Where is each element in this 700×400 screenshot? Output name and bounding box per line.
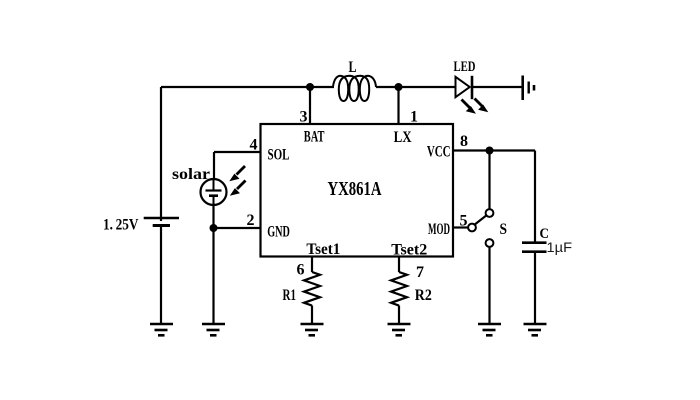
- LED D1 triangle: [456, 77, 470, 97]
- svg-text:1: 1: [410, 109, 418, 126]
- wire solar cell to GND junction: [212, 204, 214, 228]
- wire battery to ground: [160, 225, 162, 324]
- resistor R2: [391, 272, 407, 306]
- solar cell inner short plate: [209, 194, 218, 197]
- svg-text:VCC: VCC: [427, 143, 451, 160]
- wire pin4 SOL horizontal: [214, 151, 261, 153]
- wire left vertical (top rail down to battery): [160, 87, 162, 221]
- node junction dot at LX/top-rail: [395, 83, 403, 91]
- solar cell inner long plate: [206, 189, 222, 191]
- wire pin2 GND horizontal: [214, 227, 261, 229]
- node junction dot VCC rail: [486, 147, 494, 155]
- wire solar junction to ground: [212, 228, 214, 324]
- svg-text:5: 5: [460, 213, 468, 230]
- solar cell inner top lead: [213, 180, 215, 191]
- svg-text:Tset1: Tset1: [306, 241, 340, 258]
- svg-text:4: 4: [250, 137, 258, 154]
- svg-text:8: 8: [460, 133, 468, 150]
- capacitor C bottom plate: [522, 250, 547, 253]
- svg-text:solar: solar: [172, 166, 210, 183]
- wire switch lower contact to ground: [488, 247, 490, 325]
- svg-text:MOD: MOD: [428, 221, 450, 238]
- node junction dot solar/GND: [210, 224, 218, 232]
- wire SOL down to solar cell: [213, 152, 215, 180]
- wire VCC junction down to switch: [488, 151, 490, 210]
- IC U1 YX861A body: [261, 124, 454, 257]
- svg-text:GND: GND: [267, 223, 290, 240]
- svg-text:S: S: [500, 221, 508, 238]
- switch S mod contact circle: [468, 224, 476, 232]
- capacitor C top plate: [522, 241, 547, 244]
- wire pin6 Tset1 down: [311, 257, 313, 273]
- inductor L: [333, 76, 376, 101]
- svg-text:1. 25V: 1. 25V: [103, 217, 139, 234]
- ground (capacitor): [524, 324, 547, 335]
- svg-text:7: 7: [416, 264, 424, 281]
- wire top rail middle (inductor to LED anode): [376, 86, 456, 88]
- ground (R1): [301, 324, 324, 335]
- ground (battery): [150, 324, 173, 335]
- svg-text:YX861A: YX861A: [328, 178, 382, 200]
- wire pin7 Tset2 down: [398, 257, 400, 273]
- switch S lower contact circle: [486, 239, 494, 247]
- svg-text:6: 6: [297, 262, 305, 279]
- wire top rail left (battery top to inductor): [161, 86, 334, 88]
- solar cell circle: [201, 179, 227, 205]
- LED emission arrow 1: [462, 100, 477, 114]
- svg-text:3: 3: [300, 109, 308, 126]
- ground (R2): [388, 324, 411, 335]
- battery B1 long plate: [144, 217, 179, 219]
- svg-text:L: L: [349, 59, 357, 76]
- node junction dot at BAT/top-rail: [306, 83, 314, 91]
- battery B1 short plate: [153, 224, 170, 227]
- LED emission arrow 2: [475, 99, 489, 113]
- wire cap bottom to ground: [534, 252, 536, 325]
- wire LED cathode to ground: [472, 86, 523, 88]
- wire R2 to ground: [398, 306, 400, 325]
- ground (solar): [202, 324, 225, 335]
- switch S top contact circle: [486, 209, 494, 217]
- svg-text:LX: LX: [394, 129, 413, 146]
- svg-text:2: 2: [247, 212, 255, 229]
- svg-text:BAT: BAT: [304, 128, 325, 145]
- resistor R1: [304, 272, 320, 306]
- solar light arrow 1: [229, 166, 245, 181]
- ground (switch): [478, 324, 501, 335]
- switch S blade: [474, 215, 488, 226]
- ground (LED, rotated right): [523, 76, 534, 101]
- wire pin5 MOD to switch contact: [453, 226, 469, 228]
- wire pin3 BAT to top rail: [309, 87, 311, 124]
- svg-text:LED: LED: [454, 59, 476, 75]
- wire pin8 VCC to cap branch: [453, 149, 535, 151]
- svg-text:SOL: SOL: [268, 146, 290, 163]
- svg-text:1µF: 1µF: [547, 239, 573, 255]
- solar light arrow 2: [230, 181, 246, 196]
- wire cap branch vertical: [534, 151, 536, 243]
- svg-text:Tset2: Tset2: [391, 242, 427, 259]
- svg-text:R1: R1: [283, 287, 297, 304]
- svg-text:R2: R2: [415, 287, 432, 304]
- wire R1 to ground: [311, 306, 313, 325]
- solar cell inner bottom lead: [213, 196, 215, 204]
- LED D1 cathode bar: [471, 76, 474, 99]
- wire pin1 LX to top rail: [397, 87, 399, 124]
